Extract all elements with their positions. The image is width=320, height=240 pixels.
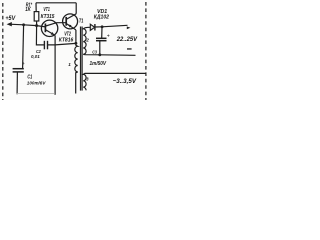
- svg-text:3: 3: [86, 77, 89, 82]
- VT1 emitter arrow: [51, 32, 55, 35]
- resistor R1 top lead: [35, 3, 37, 12]
- transistor VT1 emitter: [46, 30, 55, 36]
- capacitor C3 top lead: [101, 27, 103, 39]
- capacitor C2 right plate: [47, 41, 49, 50]
- svg-text:КТ816: КТ816: [59, 37, 75, 43]
- wire top rail: [36, 2, 76, 4]
- wire base rail: [24, 25, 46, 27]
- wire -output: [100, 54, 136, 57]
- junction emitters/winding1: [74, 42, 77, 45]
- svg-text:100m/6V: 100m/6V: [27, 81, 46, 87]
- wire C2 left leg: [36, 26, 44, 45]
- transistor VT1 circle: [41, 20, 57, 36]
- transformer T1 winding 3: [83, 73, 146, 90]
- capacitor C2 left plate: [43, 41, 45, 50]
- diode VD1 cathode bar: [94, 24, 96, 31]
- svg-text:+: +: [107, 33, 110, 39]
- wire VT2 collector riser: [75, 3, 77, 14]
- transistor VT2 base bar: [65, 17, 67, 26]
- svg-text:+5V: +5V: [5, 15, 16, 22]
- svg-text:1K: 1K: [25, 7, 31, 13]
- transformer T1 winding 1: [75, 43, 78, 93]
- svg-text:0,01: 0,01: [31, 54, 40, 60]
- junction R1/base: [35, 24, 38, 27]
- svg-text:КД102: КД102: [94, 14, 109, 20]
- svg-text:VT1: VT1: [43, 7, 49, 13]
- capacitor C3 bottom plate: [96, 40, 107, 42]
- wire C1 riser: [23, 25, 24, 69]
- svg-text:1: 1: [68, 62, 71, 67]
- VT2 emitter arrow: [68, 25, 72, 28]
- background: [0, 0, 150, 100]
- svg-text:2: 2: [85, 38, 89, 43]
- wire VT1 emitter drop: [54, 35, 56, 94]
- capacitor C1 bottom plate: [13, 71, 24, 73]
- resistor R1 bottom lead: [36, 21, 38, 26]
- wire VD1 to junction: [95, 26, 102, 28]
- junction input/C1: [22, 23, 25, 26]
- svg-text:КТ315: КТ315: [41, 14, 56, 20]
- wire +5V input shaft: [9, 23, 24, 26]
- dashed border right: [145, 2, 147, 100]
- capacitor C3 top plate: [96, 37, 107, 39]
- wire VT2 emitter riser: [75, 30, 77, 43]
- dashed border left: [2, 3, 4, 100]
- transistor VT2 collector: [67, 14, 77, 19]
- transistor VT2 emitter: [67, 24, 76, 30]
- wire emitter node horizontal: [48, 43, 76, 45]
- wire +output: [102, 25, 127, 27]
- output terminal tick: [127, 26, 131, 29]
- transformer T1 core line 1: [80, 27, 82, 91]
- junction VD1/C3: [101, 25, 104, 28]
- resistor R1 body: [34, 12, 39, 21]
- transistor VT1 base bar: [44, 24, 46, 33]
- wire C1 lower lead: [16, 72, 18, 94]
- capacitor C1 top plate: [13, 68, 24, 70]
- transformer T1 core line 2: [81, 27, 83, 91]
- faint cropped bottom rail: [16, 93, 55, 95]
- junction C3/winding2: [98, 53, 101, 56]
- svg-text:+: +: [22, 61, 25, 66]
- svg-text:22..25V: 22..25V: [116, 37, 138, 43]
- transformer T1 winding 2: [83, 27, 100, 55]
- svg-text:~3..3,5V: ~3..3,5V: [113, 79, 137, 85]
- diode VD1 triangle: [90, 24, 94, 30]
- svg-text:C3: C3: [92, 50, 97, 55]
- capacitor C3 bottom lead: [99, 41, 101, 55]
- svg-text:T1: T1: [79, 18, 84, 24]
- svg-text:1m/50V: 1m/50V: [90, 61, 107, 67]
- transistor VT2 circle: [63, 14, 78, 29]
- label minus output: [127, 48, 132, 49]
- +5V arrow head: [7, 22, 12, 26]
- transistor VT1 collector: [46, 23, 67, 26]
- svg-text:C1: C1: [27, 75, 32, 81]
